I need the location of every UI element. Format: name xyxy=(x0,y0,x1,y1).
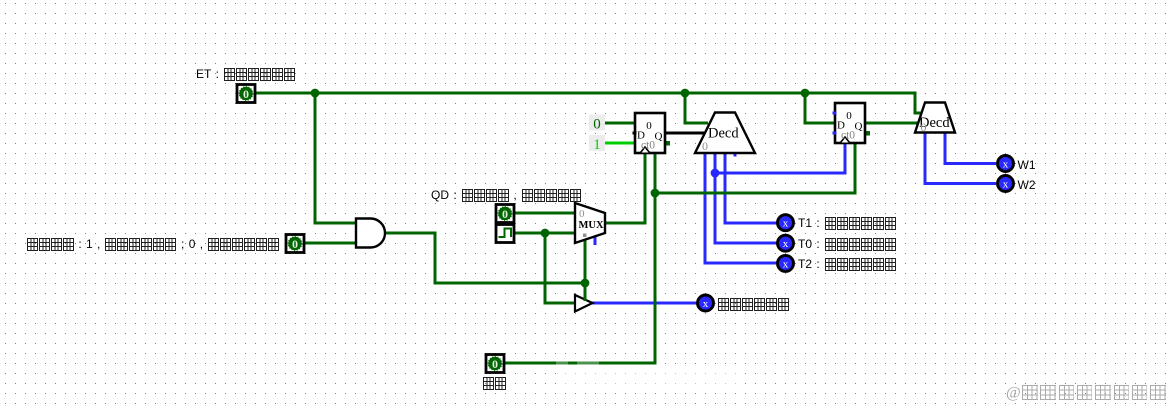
label W1 xyxy=(1018,158,1036,172)
label clock select xyxy=(26,237,279,251)
svg-text:x: x xyxy=(703,298,709,310)
svg-text:0: 0 xyxy=(921,120,927,134)
svg-text:0: 0 xyxy=(646,120,652,132)
mux MUX xyxy=(575,203,605,243)
wire const0 to counter1 xyxy=(605,122,635,125)
label internal clock out xyxy=(717,297,789,311)
wire T0 branch to counter2 clock xyxy=(715,143,845,173)
wire decoder2 out0 to W2 xyxy=(925,132,996,184)
svg-text:0: 0 xyxy=(502,207,508,221)
faint watermark overlay xyxy=(556,360,742,392)
carry stub counter2 xyxy=(865,131,870,136)
output pin T2 xyxy=(778,255,794,271)
constant 0 xyxy=(589,115,605,133)
counter C1 xyxy=(633,113,666,153)
svg-text:MUX: MUX xyxy=(579,220,604,231)
output pin T1 xyxy=(778,215,794,231)
wire AND output to mux enable net xyxy=(385,233,585,283)
svg-text:x: x xyxy=(783,218,789,230)
wire decoder1 out0 to T2 xyxy=(705,153,777,263)
input pin clock-select xyxy=(286,235,304,253)
wire buffer output to clock-out pin xyxy=(592,302,697,305)
wire mux output to counter1 clock xyxy=(605,153,645,223)
svg-text:x: x xyxy=(783,238,789,250)
bus counter1 Q to decoder1 select xyxy=(665,132,707,135)
wire QD pin to mux in0 xyxy=(515,212,575,215)
svg-text:Decd: Decd xyxy=(708,126,739,142)
wire ET branch to decoder1 enable xyxy=(685,93,708,123)
junction clock/buffer xyxy=(541,229,550,238)
svg-text:x: x xyxy=(1003,159,1009,171)
junction ET/AND xyxy=(311,89,320,98)
wire reset branch to counter2 reset xyxy=(655,143,855,193)
svg-text:ct0: ct0 xyxy=(641,140,655,152)
decoder U2 Decd xyxy=(915,103,955,135)
svg-text:x: x xyxy=(1003,179,1009,191)
wire decoder2 out1 to W1 xyxy=(945,132,996,164)
AND gate xyxy=(356,219,385,248)
svg-text:ct0: ct0 xyxy=(841,130,855,142)
svg-text:0: 0 xyxy=(492,357,498,371)
label T0 xyxy=(798,237,896,251)
mux select stub xyxy=(594,236,597,245)
wire const1 to counter1 xyxy=(605,142,635,145)
svg-text:1: 1 xyxy=(593,137,601,153)
svg-text:Q: Q xyxy=(655,131,663,143)
decoder U1 Decd xyxy=(695,113,755,154)
junction reset xyxy=(651,189,660,198)
wire ET main xyxy=(255,93,921,113)
svg-text:x: x xyxy=(783,258,789,270)
svg-text:0: 0 xyxy=(702,139,708,153)
label ET xyxy=(196,67,295,81)
wire decoder1 out1 to T0 xyxy=(715,153,777,243)
wire reset pin to counter1 reset xyxy=(505,153,655,363)
clock source xyxy=(496,225,514,243)
wire ET to AND input a xyxy=(315,93,356,223)
label T1 xyxy=(798,216,896,230)
junction ET/decoder1 xyxy=(681,89,690,98)
input pin ET xyxy=(237,85,255,103)
junction enable/control xyxy=(581,279,590,288)
counter C2 xyxy=(833,103,866,143)
label QD xyxy=(431,188,581,202)
svg-text:0: 0 xyxy=(593,117,601,133)
wire ET branch to counter2 D xyxy=(805,93,835,123)
svg-text:0: 0 xyxy=(579,208,585,220)
constant 1 xyxy=(589,135,605,153)
wire clock branch to buffer input xyxy=(545,233,575,303)
wire mux-enable control over buffer xyxy=(584,283,587,301)
output pin T0 xyxy=(778,235,794,251)
svg-text:0: 0 xyxy=(243,87,249,101)
junction T0/clock2 xyxy=(711,169,720,178)
label reset xyxy=(482,376,506,390)
label W2 xyxy=(1018,178,1036,192)
label T2 xyxy=(798,257,896,271)
wire clock to mux in1 xyxy=(515,232,575,235)
wire decoder1 out2 to T1 xyxy=(725,153,777,223)
watermark xyxy=(1006,385,1167,401)
wire decoder1 out3 stub xyxy=(734,153,737,157)
wire mux enable lead xyxy=(584,240,587,283)
controlled buffer xyxy=(575,295,593,312)
input pin QD xyxy=(496,205,514,223)
carry stub counter1 xyxy=(665,141,670,146)
input pin reset xyxy=(486,355,504,373)
wire clk-select pin to AND input b xyxy=(305,242,356,245)
output pin W1 xyxy=(998,156,1014,172)
svg-text:Q: Q xyxy=(855,121,863,133)
svg-text:0: 0 xyxy=(292,237,298,251)
junction ET/counter2 xyxy=(801,89,810,98)
wire counter2 Q to decoder2 select xyxy=(865,122,918,125)
svg-text:0: 0 xyxy=(846,110,852,122)
output pin internal clock xyxy=(698,295,714,311)
output pin W2 xyxy=(998,176,1014,192)
